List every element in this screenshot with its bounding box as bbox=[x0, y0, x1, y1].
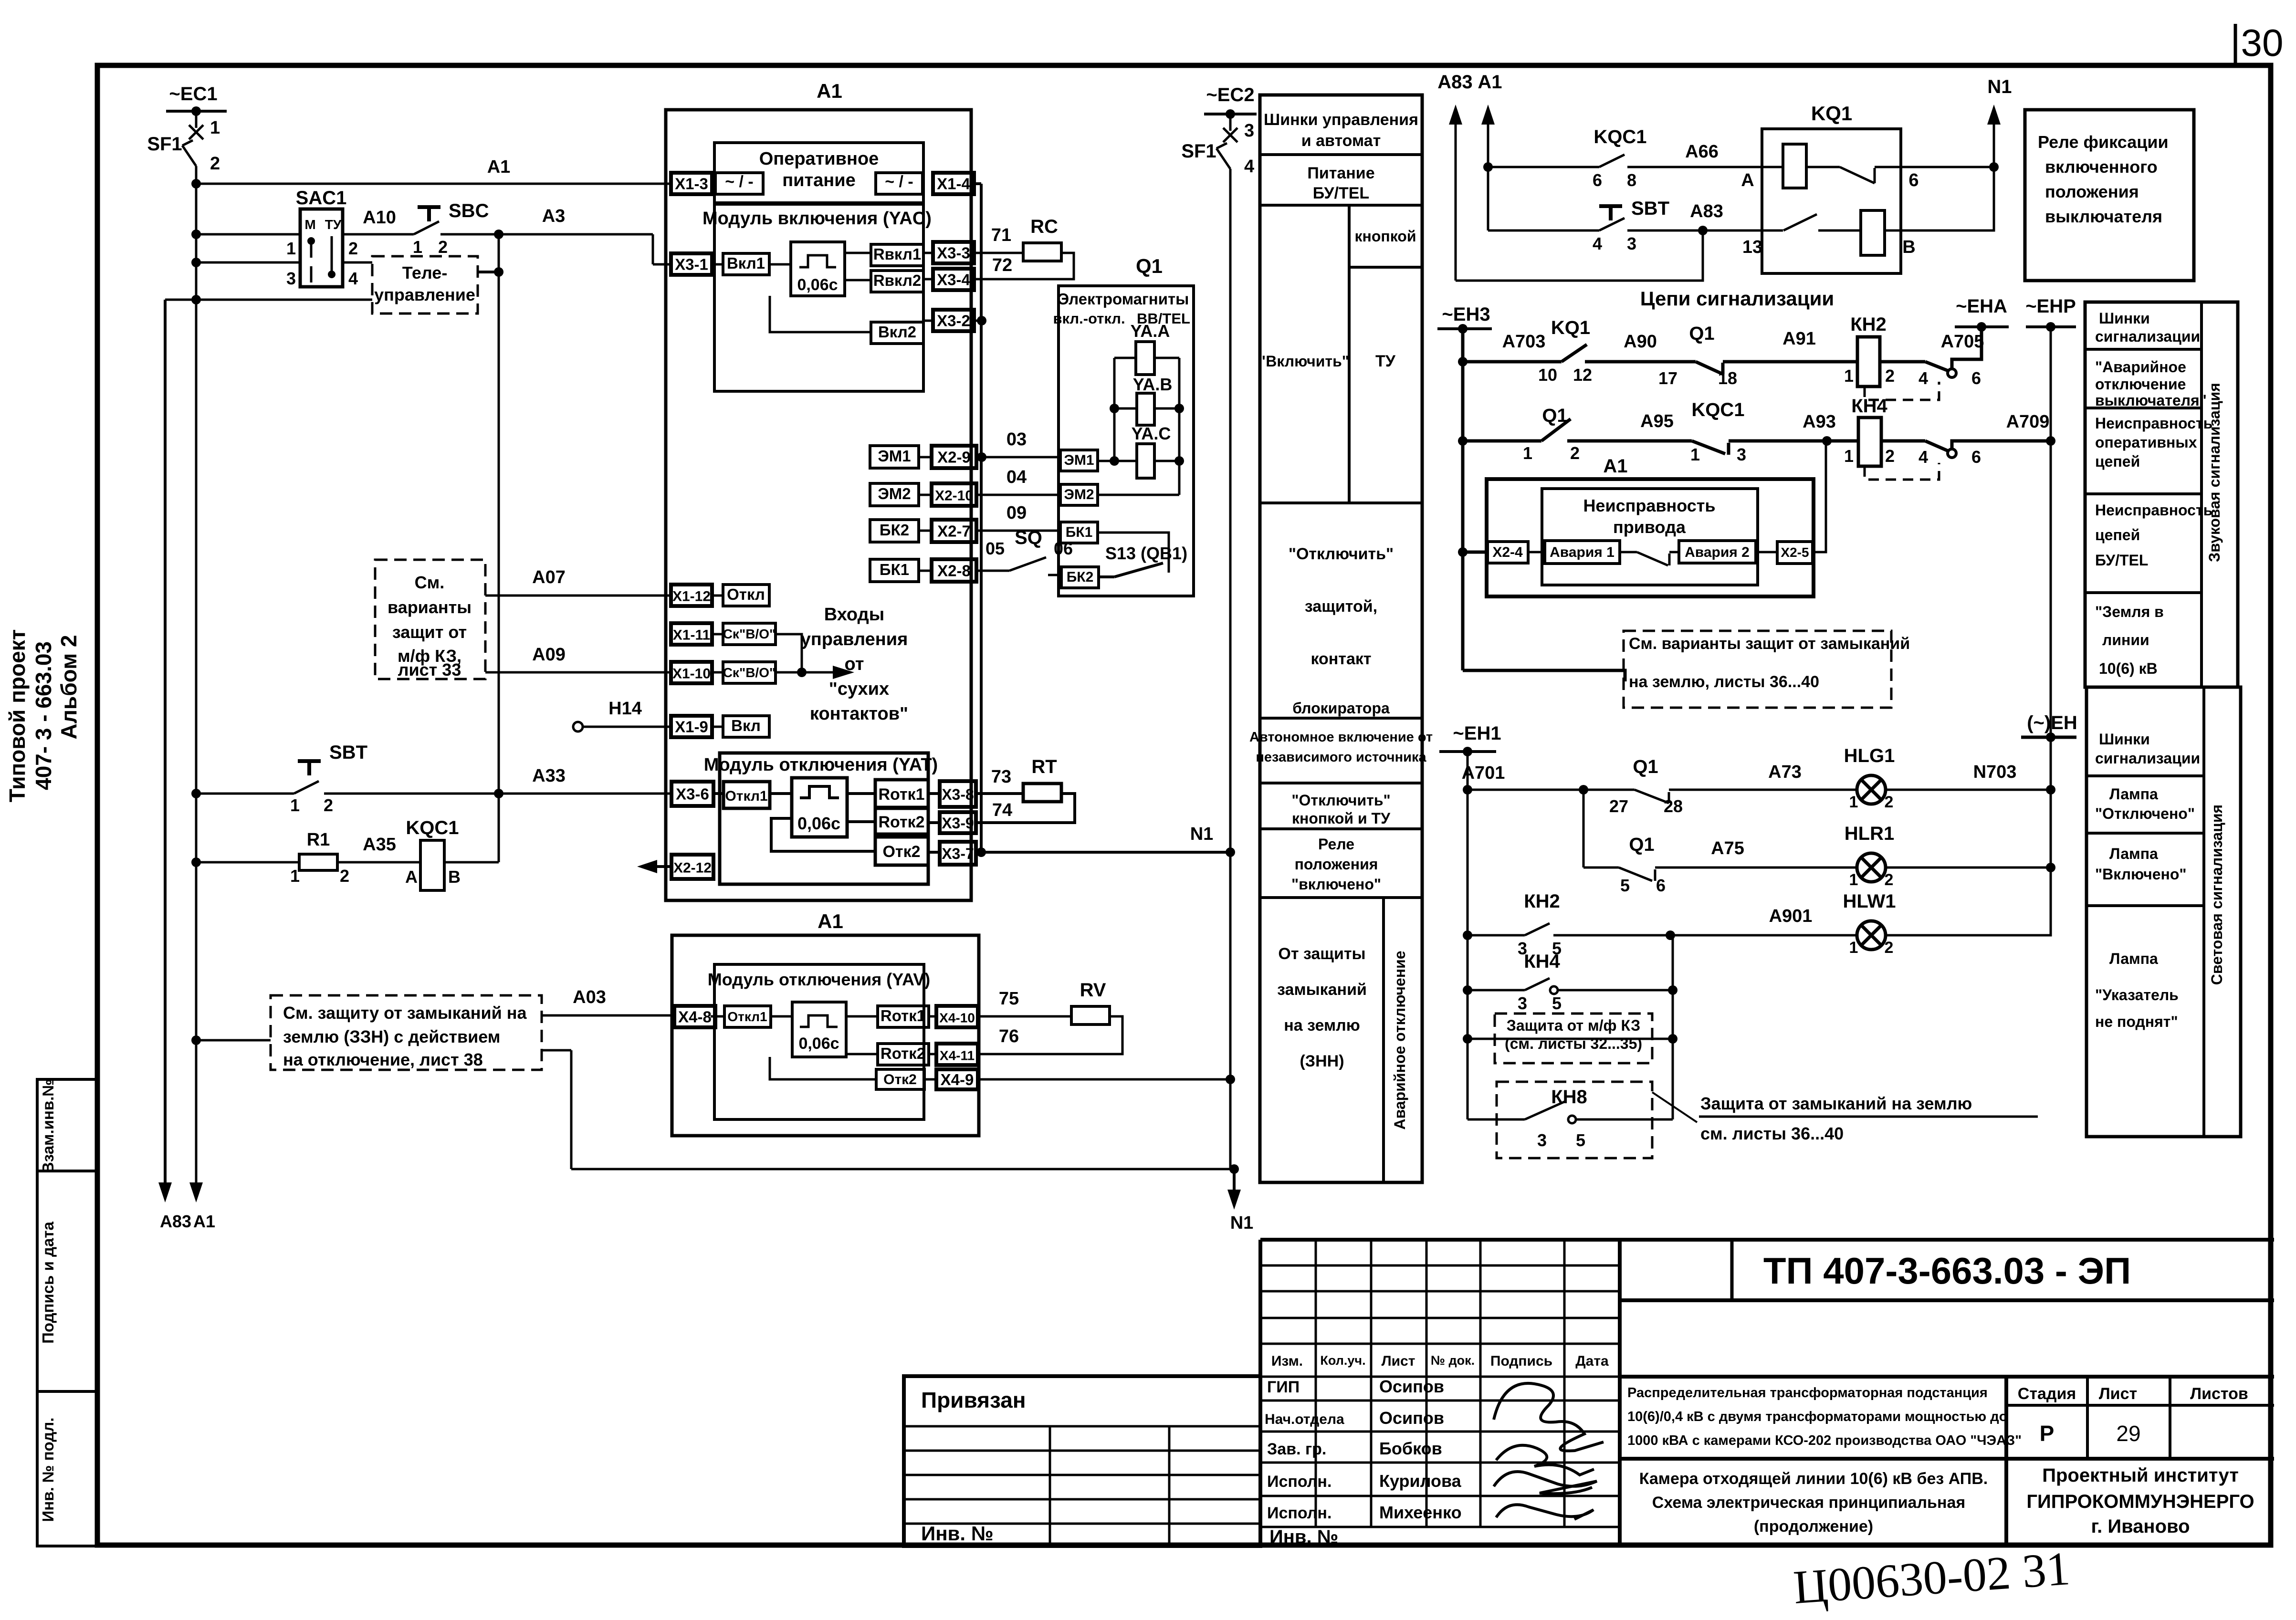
contact KH4-A709 bbox=[1919, 412, 2055, 467]
column text avarijnoe otkl vertical bbox=[1391, 951, 1408, 1129]
wire Q1 right bus bbox=[1178, 358, 1181, 495]
title block header labels bbox=[1271, 1353, 1609, 1369]
svg-text:БУ/TEL: БУ/TEL bbox=[2095, 552, 2148, 569]
svg-text:Звуковая сигнализация: Звуковая сигнализация bbox=[2206, 383, 2223, 562]
svg-text:1: 1 bbox=[1849, 939, 1858, 957]
wire YAT feedback loop bbox=[771, 818, 875, 851]
svg-text:3: 3 bbox=[1537, 1130, 1547, 1150]
svg-text:KQC1: KQC1 bbox=[1594, 126, 1646, 147]
svg-text:X3-1: X3-1 bbox=[675, 256, 708, 273]
column sound vertical strip bbox=[2206, 383, 2223, 562]
svg-text:SF1: SF1 bbox=[1181, 141, 1216, 162]
pulse module 0,06s YAC bbox=[791, 242, 845, 296]
svg-text:Нач.отдела: Нач.отдела bbox=[1265, 1411, 1344, 1427]
wire 75 RV loop bbox=[978, 980, 1122, 1054]
svg-text:~ЕН3: ~ЕН3 bbox=[1442, 304, 1490, 325]
svg-text:А709: А709 bbox=[2006, 412, 2050, 432]
svg-text:2: 2 bbox=[324, 795, 333, 815]
circuit breaker SF1 second bbox=[1181, 114, 1254, 177]
svg-text:А1: А1 bbox=[817, 80, 842, 102]
svg-text:~ЕНР: ~ЕНР bbox=[2025, 296, 2076, 317]
svg-text:на землю: на землю bbox=[1284, 1016, 1360, 1035]
svg-text:N703: N703 bbox=[1973, 762, 2017, 782]
svg-text:А33: А33 bbox=[532, 766, 566, 786]
switch SAC1 bbox=[286, 188, 358, 288]
lamp HLG1 bbox=[1844, 745, 2055, 811]
svg-text:Кол.уч.: Кол.уч. bbox=[1320, 1353, 1365, 1368]
column text bus control bbox=[1264, 111, 1418, 150]
svg-text:А705: А705 bbox=[1941, 332, 1984, 352]
svg-text:ГИПРОКОММУНЭНЕРГО: ГИПРОКОММУНЭНЕРГО bbox=[2026, 1491, 2254, 1512]
svg-text:От защиты: От защиты bbox=[1278, 945, 1365, 963]
svg-text:30: 30 bbox=[2241, 21, 2284, 64]
svg-text:Аварийное отключение: Аварийное отключение bbox=[1391, 951, 1408, 1129]
svg-text:76: 76 bbox=[999, 1026, 1019, 1046]
wire lower tap bbox=[165, 295, 372, 304]
svg-text:№ док.: № док. bbox=[1431, 1353, 1475, 1368]
input Otkl1 YAT bbox=[713, 782, 792, 808]
svg-text:Дата: Дата bbox=[1575, 1353, 1609, 1369]
svg-text:12: 12 bbox=[1573, 365, 1592, 385]
svg-text:А83: А83 bbox=[160, 1212, 191, 1231]
connector EM2 left bbox=[870, 483, 919, 506]
svg-text:71: 71 bbox=[991, 225, 1011, 245]
svg-text:А: А bbox=[1741, 170, 1754, 190]
svg-text:Зав. гр.: Зав. гр. bbox=[1267, 1440, 1326, 1458]
svg-text:положения: положения bbox=[1295, 856, 1378, 873]
connector X2-12 bbox=[637, 855, 713, 879]
svg-text:Автономное включение от: Автономное включение от bbox=[1249, 730, 1433, 745]
output Rotk1 bbox=[847, 780, 928, 807]
svg-text:Отк2: Отк2 bbox=[883, 1072, 917, 1087]
module box A1 bbox=[666, 80, 971, 900]
svg-text:SBT: SBT bbox=[329, 742, 367, 763]
svg-text:4: 4 bbox=[1919, 368, 1928, 388]
svg-text:1: 1 bbox=[413, 237, 422, 257]
module YAV box bbox=[708, 964, 931, 1119]
svg-text:Инв. №: Инв. № bbox=[921, 1522, 994, 1545]
svg-text:~ / -: ~ / - bbox=[885, 173, 913, 191]
column text power BU bbox=[1307, 164, 1374, 202]
svg-text:Вкл1: Вкл1 bbox=[727, 254, 765, 272]
svg-text:оперативных: оперативных bbox=[2095, 434, 2197, 451]
title block names bbox=[1379, 1377, 1462, 1522]
svg-text:Исполн.: Исполн. bbox=[1267, 1473, 1331, 1491]
svg-text:Инв. №: Инв. № bbox=[1269, 1526, 1338, 1547]
title block roles bbox=[1265, 1378, 1344, 1522]
svg-text:RC: RC bbox=[1030, 216, 1058, 237]
svg-text:Листов: Листов bbox=[2190, 1385, 2248, 1403]
svg-text:цепей: цепей bbox=[2095, 526, 2140, 543]
svg-text:X2-7: X2-7 bbox=[937, 523, 971, 540]
svg-text:X3-6: X3-6 bbox=[676, 785, 709, 803]
svg-text:SBT: SBT bbox=[1631, 198, 1669, 219]
svg-text:X1-11: X1-11 bbox=[673, 627, 710, 643]
svg-text:ЭМ1: ЭМ1 bbox=[878, 447, 911, 465]
svg-text:HLG1: HLG1 bbox=[1844, 745, 1895, 766]
svg-text:Лист: Лист bbox=[1382, 1353, 1415, 1369]
dashed box see protection variants sheet 33 bbox=[375, 560, 485, 679]
svg-text:отключение: отключение bbox=[2095, 376, 2186, 393]
circuit breaker SF1 bbox=[147, 111, 220, 174]
svg-text:Типовой проект: Типовой проект bbox=[5, 629, 30, 802]
svg-text:М: М bbox=[304, 217, 315, 232]
wire to variants box bbox=[1463, 670, 1625, 681]
svg-text:Стадия: Стадия bbox=[2018, 1385, 2076, 1403]
svg-text:А09: А09 bbox=[532, 645, 566, 665]
input Vkl bbox=[712, 716, 769, 737]
svg-text:КН2: КН2 bbox=[1524, 891, 1560, 912]
wire row A75 HLR1 bbox=[1583, 834, 1857, 895]
connector EM1 right bbox=[1060, 450, 1114, 471]
wire YAC feedback loop bbox=[770, 296, 871, 332]
connector BK1 right bbox=[1060, 522, 1169, 573]
svg-text:X2-10: X2-10 bbox=[935, 488, 973, 504]
stage cells bbox=[2018, 1385, 2248, 1446]
svg-text:Q1: Q1 bbox=[1633, 756, 1658, 777]
column text TU bbox=[1375, 352, 1396, 370]
input Otkl bbox=[712, 585, 769, 606]
relay KQ1 coil B bbox=[1861, 167, 1994, 257]
wire 73 RT loop bbox=[976, 756, 1075, 823]
svg-text:Rотк2: Rотк2 bbox=[881, 1045, 925, 1062]
svg-text:Световая сигнализация: Световая сигнализация bbox=[2208, 805, 2225, 985]
title cepi signalizacii bbox=[1640, 287, 1834, 310]
svg-text:X4-9: X4-9 bbox=[941, 1071, 974, 1088]
svg-text:2: 2 bbox=[210, 154, 220, 174]
svg-text:1: 1 bbox=[1690, 445, 1700, 464]
connector X3-1 bbox=[671, 253, 712, 275]
column text ot zashchity bbox=[1277, 945, 1367, 1070]
svg-text:А1: А1 bbox=[487, 157, 511, 177]
svg-text:независимого источника: независимого источника bbox=[1256, 750, 1426, 765]
svg-text:защитой,: защитой, bbox=[1305, 597, 1377, 616]
svg-text:1: 1 bbox=[286, 239, 296, 258]
connector X2-8 bbox=[919, 559, 976, 582]
svg-text:Р: Р bbox=[2040, 1421, 2055, 1446]
operative power box bbox=[714, 143, 923, 203]
bus ~EC1 bbox=[166, 84, 227, 116]
svg-text:В: В bbox=[448, 867, 461, 887]
svg-text:Взам.инв.№: Взам.инв.№ bbox=[39, 1079, 57, 1173]
svg-text:ЭМ2: ЭМ2 bbox=[1064, 487, 1094, 502]
svg-text:(ЗНН): (ЗНН) bbox=[1300, 1052, 1344, 1070]
svg-text:2: 2 bbox=[1570, 443, 1580, 463]
lamp HLR1 bbox=[1845, 823, 2055, 889]
svg-text:Вкл2: Вкл2 bbox=[878, 323, 916, 341]
Q1 box label bbox=[1053, 290, 1190, 327]
svg-text:04: 04 bbox=[1006, 467, 1027, 487]
svg-text:1: 1 bbox=[290, 866, 300, 886]
svg-text:2: 2 bbox=[348, 239, 358, 258]
svg-text:N1: N1 bbox=[1230, 1213, 1254, 1233]
output Otk2 YAT bbox=[875, 837, 928, 865]
svg-text:X1-10: X1-10 bbox=[672, 666, 711, 682]
svg-text:замыканий: замыканий bbox=[1277, 981, 1367, 999]
doc designation bbox=[1763, 1250, 2131, 1292]
svg-text:2: 2 bbox=[1885, 793, 1894, 811]
svg-text:6: 6 bbox=[1971, 447, 1981, 467]
contact KQC1 top bbox=[1483, 126, 1783, 190]
svg-text:А1: А1 bbox=[818, 910, 843, 932]
wire A83 vertical bbox=[158, 300, 191, 1231]
svg-text:~ЕНА: ~ЕНА bbox=[1956, 296, 2007, 317]
relay coil KH2 bbox=[1844, 314, 1925, 387]
wire main vertical A1 line bbox=[189, 166, 215, 1231]
sheet number 30 bbox=[2235, 21, 2283, 64]
svg-text:1: 1 bbox=[1849, 793, 1858, 811]
output Rvkl1 bbox=[845, 244, 923, 266]
svg-text:"Отключено": "Отключено" bbox=[2095, 805, 2195, 822]
svg-text:Н14: Н14 bbox=[608, 699, 642, 719]
svg-text:27: 27 bbox=[1609, 796, 1628, 816]
svg-text:А66: А66 bbox=[1685, 142, 1719, 162]
svg-text:8: 8 bbox=[1627, 170, 1636, 190]
box neispravnost privoda bbox=[1542, 489, 1758, 585]
svg-text:А83: А83 bbox=[1690, 201, 1723, 221]
svg-text:Подпись: Подпись bbox=[1490, 1353, 1552, 1369]
coil YA.C bbox=[1110, 424, 1184, 478]
connector X2-5 bbox=[1777, 439, 1826, 564]
pulse module 0,06s YAV bbox=[792, 1002, 846, 1057]
wire SAC1 pin4 to tele box bbox=[343, 261, 372, 264]
svg-text:Лампа: Лампа bbox=[2109, 950, 2158, 967]
svg-text:привода: привода bbox=[1613, 517, 1686, 537]
svg-text:~ЕН1: ~ЕН1 bbox=[1453, 723, 1501, 744]
svg-text:2: 2 bbox=[340, 866, 349, 886]
column light box bbox=[2086, 687, 2241, 1137]
svg-text:X4-10: X4-10 bbox=[939, 1011, 975, 1025]
svg-text:74: 74 bbox=[992, 800, 1012, 820]
svg-text:А93: А93 bbox=[1803, 412, 1836, 432]
svg-text:кнопкой: кнопкой bbox=[1354, 228, 1416, 245]
svg-text:А91: А91 bbox=[1782, 329, 1816, 349]
svg-text:кнопкой и ТУ: кнопкой и ТУ bbox=[1292, 810, 1391, 827]
svg-text:407- 3 - 663.03: 407- 3 - 663.03 bbox=[31, 641, 56, 790]
svg-text:Распределительная трансформато: Распределительная трансформаторная подст… bbox=[1627, 1385, 1988, 1401]
svg-text:Ск"В/О": Ск"В/О" bbox=[723, 665, 776, 680]
svg-text:0,06с: 0,06с bbox=[797, 276, 838, 294]
svg-text:1: 1 bbox=[1844, 366, 1854, 386]
svg-text:"Отключить": "Отключить" bbox=[1291, 792, 1390, 809]
svg-text:10(6) кВ: 10(6) кВ bbox=[2099, 660, 2158, 677]
connector X3-7 bbox=[928, 842, 976, 865]
bus ~EHP bbox=[2025, 296, 2076, 332]
svg-text:Реле: Реле bbox=[1318, 836, 1354, 853]
connector BK2 right bbox=[1061, 543, 1187, 588]
svg-text:~ / -: ~ / - bbox=[725, 173, 754, 191]
sidebar strip bbox=[37, 1079, 97, 1546]
module box A1 third bbox=[1487, 456, 1814, 596]
svg-text:Оперативное: Оперативное bbox=[759, 149, 879, 169]
coil YA.A bbox=[1114, 321, 1179, 375]
svg-text:Откл1: Откл1 bbox=[727, 1009, 767, 1024]
column sound box bbox=[2085, 302, 2238, 687]
svg-text:05: 05 bbox=[985, 539, 1005, 558]
svg-text:Альбом 2: Альбом 2 bbox=[56, 635, 81, 739]
wire A07 bbox=[485, 567, 671, 596]
svg-text:Проектный институт: Проектный институт bbox=[2042, 1465, 2239, 1486]
svg-text:Неисправность: Неисправность bbox=[2095, 415, 2212, 432]
svg-text:управление: управление bbox=[374, 285, 475, 304]
wire branch to row2 bbox=[1583, 790, 1585, 867]
svg-text:Лампа: Лампа bbox=[2109, 785, 2158, 803]
svg-text:сигнализации: сигнализации bbox=[2095, 328, 2200, 345]
dashed box KH8 bbox=[1497, 1082, 1652, 1158]
connector BK2 left bbox=[870, 520, 919, 542]
svg-text:X4-11: X4-11 bbox=[940, 1048, 975, 1063]
column text otklyuchit zashchitoj bbox=[1289, 545, 1394, 717]
wire ZZN lower stub bbox=[542, 1050, 571, 1169]
note box rele fiksacii bbox=[2025, 110, 2194, 281]
pushbutton SBT bbox=[191, 742, 671, 815]
svg-text:"Включено": "Включено" bbox=[2095, 866, 2187, 883]
arrow A1 up bbox=[1478, 72, 1502, 230]
svg-text:5: 5 bbox=[1576, 1130, 1585, 1150]
connector X3-8 bbox=[928, 781, 976, 807]
connector X1-10 bbox=[671, 662, 712, 683]
svg-text:6: 6 bbox=[1908, 170, 1919, 190]
relay KQ1 box bbox=[1762, 102, 1901, 273]
input Vkl1 bbox=[712, 253, 791, 275]
relay coil KQC1 (latch) bbox=[405, 817, 499, 890]
svg-text:Шинки: Шинки bbox=[2099, 731, 2150, 748]
bus ~EHA bbox=[1955, 296, 2009, 332]
svg-text:Осипов: Осипов bbox=[1379, 1377, 1444, 1396]
svg-text:5: 5 bbox=[1552, 993, 1562, 1013]
svg-text:Модуль отключения (YAT): Модуль отключения (YAT) bbox=[704, 755, 938, 775]
output Otk2 YAV bbox=[876, 1069, 924, 1089]
teleupravlenie dashed box bbox=[372, 256, 478, 314]
svg-text:Исполн.: Исполн. bbox=[1267, 1504, 1331, 1522]
svg-text:X2-8: X2-8 bbox=[937, 562, 971, 580]
lamp HLW1 bbox=[1843, 867, 2051, 957]
svg-text:БК2: БК2 bbox=[1067, 569, 1094, 585]
svg-text:4: 4 bbox=[1593, 234, 1602, 253]
svg-text:X4-8: X4-8 bbox=[678, 1008, 712, 1026]
svg-text:03: 03 bbox=[1006, 429, 1027, 449]
svg-text:KQ1: KQ1 bbox=[1551, 317, 1590, 338]
svg-text:X2-5: X2-5 bbox=[1781, 545, 1809, 560]
wire 09 bbox=[976, 503, 1060, 531]
svg-text:ТУ: ТУ bbox=[1375, 352, 1396, 370]
svg-text:YA.A: YA.A bbox=[1131, 321, 1170, 341]
module box A1 second bbox=[672, 910, 979, 1136]
svg-text:~EC1: ~EC1 bbox=[169, 84, 217, 105]
svg-text:28: 28 bbox=[1664, 796, 1683, 816]
column light vertical strip bbox=[2208, 805, 2225, 985]
svg-text:X3-2: X3-2 bbox=[937, 312, 970, 330]
svg-text:HLW1: HLW1 bbox=[1843, 891, 1896, 912]
svg-text:варианты: варианты bbox=[388, 597, 472, 617]
wire row A703 bbox=[1458, 317, 1857, 388]
svg-text:N1: N1 bbox=[1190, 824, 1214, 844]
svg-text:"включено": "включено" bbox=[1291, 876, 1381, 893]
svg-text:1000 кВА с камерами КСО-202 пр: 1000 кВА с камерами КСО-202 производства… bbox=[1627, 1433, 2022, 1448]
svg-text:Rотк1: Rотк1 bbox=[881, 1007, 925, 1024]
bus ~EC2 bbox=[1204, 84, 1257, 119]
svg-text:Лампа: Лампа bbox=[2109, 845, 2158, 862]
svg-text:S13 (QB1): S13 (QB1) bbox=[1105, 543, 1187, 563]
wire A03 bbox=[542, 987, 671, 1015]
connector X1-11 bbox=[671, 623, 712, 645]
wire H14 bbox=[573, 699, 671, 732]
svg-text:4: 4 bbox=[348, 269, 358, 288]
svg-text:А83: А83 bbox=[1437, 72, 1472, 93]
svg-text:75: 75 bbox=[999, 989, 1019, 1009]
svg-text:"Аварийное: "Аварийное bbox=[2095, 358, 2186, 376]
svg-text:"сухих: "сухих bbox=[829, 679, 889, 699]
svg-text:X3-4: X3-4 bbox=[937, 271, 970, 289]
svg-text:Неисправность: Неисправность bbox=[2095, 502, 2212, 519]
inventory label main table bbox=[1269, 1526, 1338, 1547]
svg-text:3: 3 bbox=[1627, 234, 1636, 253]
svg-text:г. Иваново: г. Иваново bbox=[2091, 1516, 2190, 1537]
svg-text:ГИП: ГИП bbox=[1267, 1378, 1300, 1396]
svg-text:1: 1 bbox=[1844, 446, 1854, 466]
svg-text:ЭМ2: ЭМ2 bbox=[878, 485, 911, 502]
svg-text:17: 17 bbox=[1658, 368, 1677, 388]
switch Q1 box bbox=[1059, 255, 1194, 596]
output Rotk2 bbox=[847, 808, 928, 834]
svg-text:18: 18 bbox=[1718, 368, 1737, 388]
wire row to SAC1 bbox=[191, 230, 300, 239]
pulse module 0,06s YAT bbox=[792, 778, 847, 837]
svg-text:Авария 2: Авария 2 bbox=[1685, 544, 1750, 560]
svg-text:1: 1 bbox=[1849, 871, 1858, 889]
dashed box see variants 36-40 bbox=[1624, 631, 1910, 708]
svg-text:Камера отходящей линии 10(6) к: Камера отходящей линии 10(6) кВ без АПВ. bbox=[1639, 1470, 1988, 1488]
svg-text:SQ: SQ bbox=[1015, 527, 1042, 548]
svg-text:Модуль включения (YAC): Модуль включения (YAC) bbox=[702, 209, 932, 229]
switch SQ bbox=[976, 527, 1073, 575]
connector X3-3 bbox=[923, 242, 974, 263]
connector X4-11 bbox=[929, 1044, 978, 1065]
svg-text:Изм.: Изм. bbox=[1271, 1353, 1303, 1369]
svg-text:Инв. № подл.: Инв. № подл. bbox=[39, 1418, 57, 1522]
svg-text:выключателя: выключателя bbox=[2045, 207, 2162, 226]
svg-text:(см. листы 32...35): (см. листы 32...35) bbox=[1505, 1035, 1642, 1052]
svg-text:включенного: включенного bbox=[2045, 157, 2158, 177]
svg-text:"Указатель: "Указатель bbox=[2095, 986, 2179, 1003]
svg-text:Осипов: Осипов bbox=[1379, 1408, 1444, 1428]
left margin stamp text bbox=[5, 629, 81, 802]
svg-text:А703: А703 bbox=[1502, 332, 1546, 352]
svg-text:на отключение, лист 38: на отключение, лист 38 bbox=[283, 1050, 483, 1069]
wire row KH8 bbox=[1468, 1087, 1673, 1150]
svg-text:положения: положения bbox=[2045, 182, 2139, 201]
svg-text:X1-4: X1-4 bbox=[937, 175, 970, 193]
connector X1-3 bbox=[671, 173, 712, 194]
contact Avaria1 bbox=[1545, 541, 1669, 565]
svg-text:и автомат: и автомат bbox=[1301, 132, 1381, 150]
svg-text:Схема электрическая принципиал: Схема электрическая принципиальная bbox=[1652, 1494, 1965, 1512]
svg-text:А35: А35 bbox=[363, 835, 396, 855]
svg-text:YA.B: YA.B bbox=[1133, 375, 1173, 394]
wire Q1 left bus bbox=[1113, 358, 1116, 461]
svg-text:Лист: Лист bbox=[2099, 1385, 2137, 1403]
svg-text:А07: А07 bbox=[532, 567, 566, 587]
svg-text:2: 2 bbox=[438, 237, 448, 257]
connector X4-10 bbox=[929, 1006, 978, 1027]
wire row KH4 contact bbox=[1463, 951, 1677, 1013]
svg-text:4: 4 bbox=[1244, 157, 1254, 177]
svg-text:"Земля в: "Земля в bbox=[2095, 603, 2164, 620]
svg-text:см. листы 36...40: см. листы 36...40 bbox=[1700, 1124, 1844, 1143]
output Rvkl2 bbox=[845, 271, 923, 292]
svg-text:X3-8: X3-8 bbox=[942, 786, 974, 803]
link KH2 dashed bbox=[1865, 382, 1939, 400]
